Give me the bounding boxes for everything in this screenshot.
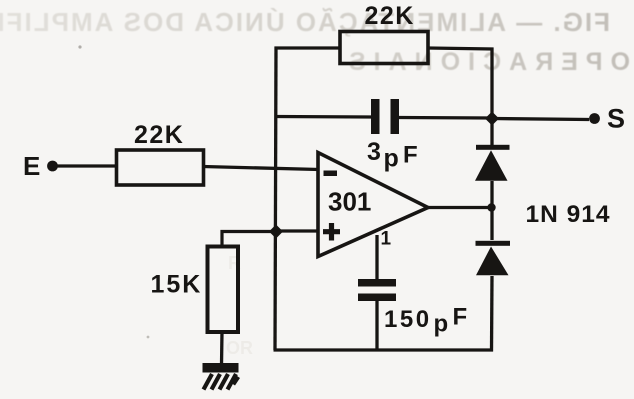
wire vertical right bus upper x=492	[490, 48, 493, 149]
svg-text:301: 301	[328, 187, 371, 217]
wire bottom rail	[274, 348, 494, 351]
node E terminal dot	[47, 161, 58, 172]
wire op-amp output	[427, 206, 492, 209]
wire 150pF to bottom rail	[375, 301, 378, 350]
svg-text:22K: 22K	[365, 2, 415, 30]
wire op-amp non-inverting input	[277, 229, 319, 232]
svg-text:FIG. — ALIMENTAÇÃO ÚNICA DOS A: FIG. — ALIMENTAÇÃO ÚNICA DOS AMPLIFICADO…	[0, 7, 610, 37]
svg-text:1: 1	[381, 229, 392, 250]
svg-text:15K: 15K	[151, 271, 203, 299]
svg-text:E: E	[23, 151, 40, 181]
resistor 22K (input)	[117, 121, 204, 185]
svg-text:OR: OR	[226, 338, 253, 358]
node S terminal dot	[589, 113, 600, 124]
resistor 22K (feedback)	[340, 2, 428, 64]
svg-text:F: F	[403, 142, 418, 169]
diode D2 1N914 (lower)	[476, 207, 511, 352]
wire vertical left bus x=276	[275, 47, 276, 351]
svg-text:3: 3	[367, 138, 381, 166]
bleed-through mirrored caption line 1	[0, 7, 610, 37]
capacitor 150pF	[358, 279, 467, 338]
junction dot feedback/output node	[485, 112, 499, 126]
bleed-through faint marks	[78, 45, 253, 358]
capacitor 3pF	[367, 99, 418, 173]
svg-text:p: p	[434, 311, 449, 338]
label 1N914	[526, 201, 611, 228]
wire 3pF line left	[275, 115, 373, 119]
wire to S terminal	[492, 119, 589, 120]
junction dot output node	[487, 203, 495, 211]
wire E to R input	[56, 164, 118, 167]
wire 15K to ground	[220, 332, 224, 365]
svg-text:p: p	[384, 145, 399, 173]
diode D1 1N914 (upper)	[475, 145, 510, 208]
junction dot non-inverting node	[269, 225, 283, 239]
svg-text:22K: 22K	[134, 121, 184, 149]
resistor 15K	[151, 247, 239, 333]
wire top loop right	[428, 48, 494, 49]
wire 3pF line right	[399, 116, 492, 120]
ground	[203, 363, 239, 390]
bleed-through mirrored caption line 2	[341, 48, 630, 76]
svg-text:F: F	[453, 304, 468, 331]
node S terminal label	[607, 104, 625, 134]
svg-text:S: S	[607, 104, 625, 134]
node E terminal label	[23, 151, 40, 181]
svg-text:1N 914: 1N 914	[526, 201, 611, 228]
pin 1 wire from op-amp	[375, 235, 378, 280]
wire 15K to junction	[222, 232, 277, 249]
svg-text:150: 150	[384, 306, 432, 333]
wire R input to op-amp inverting input	[203, 167, 319, 170]
pin 1 label	[381, 229, 392, 250]
op-amp U1 301	[318, 153, 428, 257]
wire top loop left	[275, 46, 342, 49]
